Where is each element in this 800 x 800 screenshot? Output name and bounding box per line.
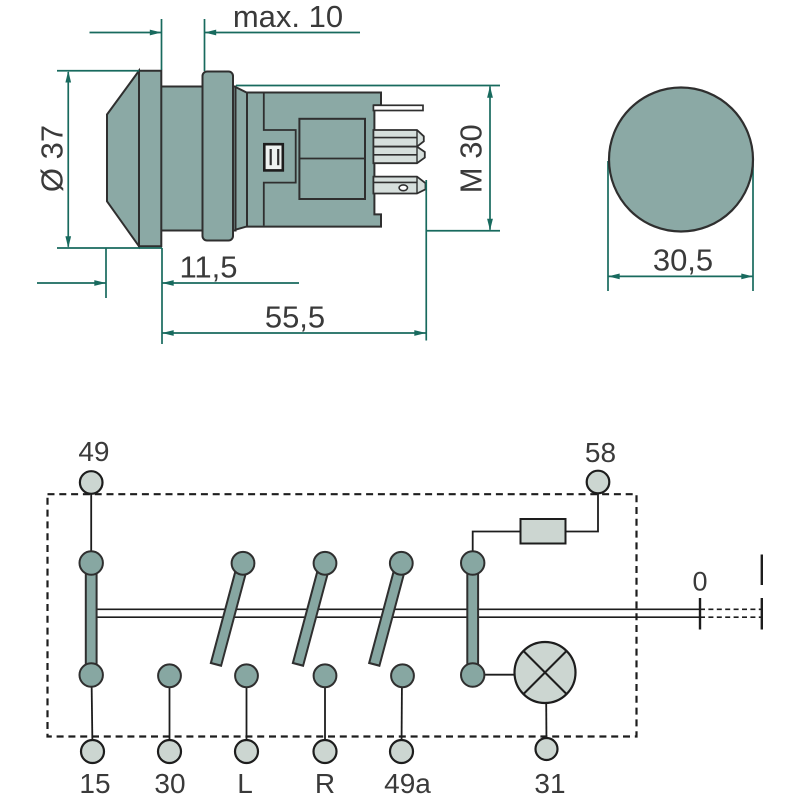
contact circle bridge1 top bbox=[80, 551, 103, 574]
wire 49 to bridge1 bbox=[90, 483, 92, 563]
svg-text:55,5: 55,5 bbox=[265, 300, 325, 335]
bridge contact 2 bar bbox=[467, 563, 478, 675]
svg-text:49: 49 bbox=[78, 436, 109, 467]
dim Ø37 extension bottom bbox=[57, 247, 162, 249]
bridge contact 15-49 bar bbox=[86, 563, 97, 675]
arrow Ø37 down bbox=[65, 236, 71, 248]
terminal 58 bbox=[587, 471, 610, 494]
contact circle L top bbox=[232, 552, 255, 575]
bezel trapezoid front bbox=[107, 71, 139, 247]
terminal 30 bbox=[158, 740, 181, 763]
terminal L bbox=[235, 740, 258, 763]
mounting collar nut bbox=[203, 72, 234, 241]
dim 55,5 line bbox=[162, 332, 426, 334]
moving contact L (slanted) bbox=[216, 563, 243, 665]
svg-text:30,5: 30,5 bbox=[653, 243, 713, 278]
terminal 49a bbox=[390, 740, 413, 763]
arrow M30 down bbox=[487, 219, 493, 231]
dim Ø37 extension top bbox=[57, 70, 139, 72]
svg-text:30: 30 bbox=[154, 768, 185, 799]
terminal 15 bbox=[81, 740, 104, 763]
shared extension line x163 bbox=[161, 248, 163, 344]
wire bridge1 to terminal 15 bbox=[92, 675, 93, 751]
dim Ø37 line bbox=[67, 72, 69, 247]
moving contact 49a (slanted) bbox=[374, 563, 401, 665]
dim max10 line left bbox=[90, 32, 162, 34]
spade terminal top (edge view) bbox=[373, 105, 423, 110]
position 0 tick bbox=[699, 598, 701, 630]
dashed border bbox=[48, 494, 637, 736]
arrow 11,5 right bbox=[94, 280, 106, 286]
position I mark bbox=[761, 555, 763, 586]
resistor bbox=[521, 519, 566, 544]
arrow max10 right bbox=[150, 30, 162, 36]
fuse contacts bbox=[270, 149, 272, 165]
svg-text:58: 58 bbox=[585, 437, 616, 468]
wire contact30 to terminal 30 bbox=[169, 675, 171, 751]
dim max10 extension right bbox=[204, 19, 206, 71]
dim M30 extension top bbox=[236, 85, 500, 87]
contact block bbox=[299, 119, 365, 199]
cone transition bbox=[236, 87, 248, 230]
terminal 49 bbox=[80, 471, 103, 494]
position dashed travel bottom bbox=[700, 616, 762, 618]
housing moulding seam bbox=[264, 94, 296, 226]
wire resistor to bridge2 bbox=[473, 532, 521, 564]
dim 11,5 extension left bbox=[105, 248, 107, 298]
arrow 11,5 left bbox=[162, 280, 174, 286]
bezel rectangle bbox=[139, 71, 161, 247]
svg-text:Ø 37: Ø 37 bbox=[35, 125, 70, 192]
terminal hole bbox=[399, 185, 407, 191]
dim M30 line bbox=[489, 87, 491, 230]
moving contact R (slanted) bbox=[298, 563, 325, 665]
contact circle R top bbox=[314, 552, 337, 575]
arrow max10 left bbox=[205, 30, 217, 36]
contact circle 49a top bbox=[390, 552, 413, 575]
dim 55,5 extension right bbox=[425, 180, 427, 341]
svg-text:31: 31 bbox=[534, 768, 565, 799]
spade terminal 2 bbox=[373, 130, 423, 147]
svg-text:R: R bbox=[315, 768, 335, 799]
neck (threaded barrel M30) bbox=[161, 87, 236, 231]
spade terminal bottom bbox=[373, 177, 425, 194]
button front face bbox=[609, 88, 753, 232]
wire bridge2 to lamp bbox=[473, 674, 515, 676]
dim max10 extension left bbox=[161, 19, 163, 70]
contact circle bridge2 top bbox=[461, 551, 484, 574]
contact block divider bbox=[299, 158, 365, 160]
svg-text:0: 0 bbox=[692, 567, 707, 597]
dim max10 line right bbox=[205, 32, 361, 34]
dim 11,5 line right bbox=[162, 282, 299, 284]
terminal 31 bbox=[536, 738, 558, 760]
svg-text:49a: 49a bbox=[384, 768, 431, 799]
dim 30,5 extension right bbox=[752, 161, 754, 291]
arrow 30,5 left bbox=[608, 274, 620, 280]
contact circle bridge2 bottom bbox=[461, 663, 484, 686]
svg-text:15: 15 bbox=[79, 768, 110, 799]
contact circle L bottom bbox=[235, 664, 258, 687]
position dashed travel top bbox=[700, 608, 762, 610]
contact circle R bottom bbox=[314, 664, 337, 687]
rotor track double line bbox=[96, 609, 700, 617]
dim M30 extension bottom bbox=[426, 230, 500, 232]
svg-text:L: L bbox=[237, 768, 253, 799]
dim 11,5 line left bbox=[37, 282, 106, 284]
contact circle bridge1 bottom bbox=[80, 663, 103, 686]
wire lamp to terminal 31 bbox=[545, 703, 547, 745]
arrow 30,5 right bbox=[741, 274, 753, 280]
lamp 31 bbox=[515, 642, 576, 703]
contact circle 30 bbox=[158, 664, 181, 687]
main housing body bbox=[247, 93, 381, 227]
fuse window bbox=[264, 144, 283, 170]
arrow 55,5 right bbox=[414, 330, 426, 336]
position end tick bbox=[761, 598, 763, 630]
arrow Ø37 up bbox=[65, 71, 71, 83]
spade terminal 3 bbox=[373, 147, 424, 164]
wire 58 to resistor bbox=[566, 483, 599, 532]
arrow M30 up bbox=[487, 86, 493, 98]
arrow 55,5 left bbox=[162, 330, 174, 336]
svg-text:11,5: 11,5 bbox=[179, 250, 237, 285]
wire contact49a to terminal 49a bbox=[401, 675, 404, 751]
svg-text:M 30: M 30 bbox=[454, 124, 489, 193]
dim 30,5 extension left bbox=[607, 161, 609, 291]
contact circle 49a bottom bbox=[391, 664, 414, 687]
svg-text:max. 10: max. 10 bbox=[233, 0, 343, 34]
wire contactR to terminal R bbox=[324, 675, 326, 751]
terminal R bbox=[314, 740, 337, 763]
wire contactL to terminal L bbox=[246, 675, 248, 751]
dim 30,5 line bbox=[608, 275, 753, 277]
